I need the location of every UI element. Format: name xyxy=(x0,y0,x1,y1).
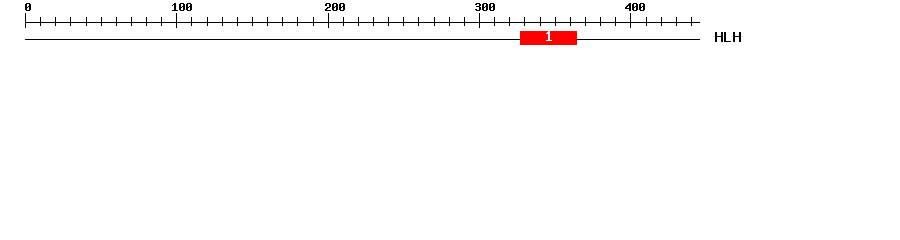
ruler major tick 100 xyxy=(176,13,177,28)
ruler major tick 400 xyxy=(630,13,631,28)
ruler label 400 xyxy=(625,3,645,11)
ruler label 200 xyxy=(325,3,345,11)
protein backbone line xyxy=(25,39,700,40)
ruler major tick 0 xyxy=(25,13,26,28)
background xyxy=(0,0,900,58)
ruler label 100 xyxy=(172,3,192,11)
domain 1 box (red) xyxy=(520,31,577,45)
domain name label HLH xyxy=(715,32,741,42)
ruler major tick 300 xyxy=(479,13,480,28)
ruler label 300 xyxy=(475,3,495,11)
ruler minor ticks (every 10 aa) xyxy=(40,17,692,26)
ruler baseline xyxy=(25,22,700,23)
ruler major tick 200 xyxy=(328,13,329,28)
ruler label 0 xyxy=(25,3,31,11)
domain number 1 xyxy=(546,31,552,41)
